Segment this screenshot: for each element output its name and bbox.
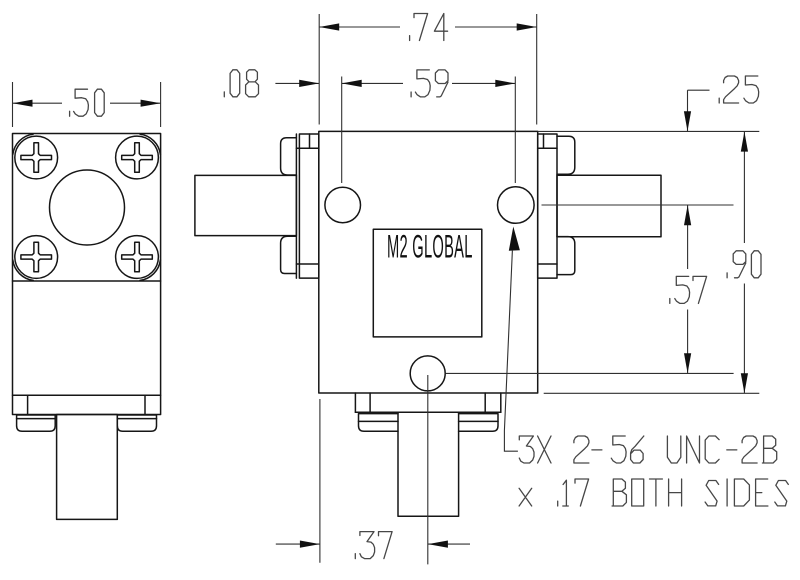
left view strip: [13, 395, 161, 414]
left screw bump bottom: [281, 236, 297, 273]
left connector stub: [195, 175, 297, 235]
left plate chamfer line bottom: [296, 263, 318, 265]
right flange plate: [538, 134, 557, 278]
mounting hole left: [325, 187, 361, 223]
dim .50 arrow left: [13, 100, 33, 107]
note text line1 3X 2-56 UNC-2B: [519, 436, 776, 463]
dim .90 line upper: [743, 132, 745, 243]
dim .25 leader vertical: [687, 90, 689, 131]
front nut tab R inner line: [459, 420, 498, 422]
corner arc BL: [13, 260, 33, 280]
left view flange bottom edge: [13, 280, 161, 282]
dim .59 arrow left: [342, 80, 362, 87]
left view flange+body outline: [13, 134, 161, 396]
dim .25 arrow: [684, 111, 691, 131]
dim .59 line left: [342, 82, 403, 84]
dim .37 line right: [428, 543, 470, 545]
note leader arrow: [509, 227, 520, 251]
dim .57 arrow up: [684, 205, 691, 225]
note leader line: [504, 250, 518, 451]
dim .37 line left: [276, 543, 320, 545]
dim .50 arrow right: [141, 100, 161, 107]
dim text .59: [411, 70, 448, 97]
bottom edge extension line: [544, 392, 760, 394]
right plate notch: [543, 134, 545, 148]
bottom hole centerline vertical: [427, 375, 429, 564]
dim text .50: [70, 89, 105, 116]
corner arc TR: [140, 134, 160, 154]
phillips recess 3: [21, 242, 52, 272]
phillips recess 4: [122, 242, 153, 272]
dim .90 arrow up: [741, 132, 748, 152]
dim .50 line left: [13, 102, 63, 104]
dim .08 arrow: [299, 80, 319, 87]
dim .50 ext line left: [12, 82, 14, 127]
left plate notch: [309, 134, 311, 148]
corner arc TL: [13, 134, 33, 154]
right plate chamfer line bottom: [538, 263, 557, 265]
dim text .37: [355, 532, 392, 559]
right plate chamfer line top: [538, 147, 557, 149]
right connector stub: [557, 175, 661, 237]
axis centerline horizontal: [542, 204, 734, 206]
dim .57 line lower: [687, 310, 689, 374]
screw head circle 3: [15, 236, 58, 279]
left plate outer face line: [295, 134, 297, 278]
dim text .08: [224, 70, 258, 97]
screw head circle 4: [116, 236, 159, 279]
front nut tab R: [459, 414, 498, 432]
dim .74 arrow right: [517, 23, 537, 30]
left screw bump top: [281, 138, 297, 175]
dim .59 arrow right: [495, 80, 515, 87]
dim .37 arrow right: [428, 541, 448, 548]
dim .59 ext right: [514, 77, 516, 184]
front strip inner R: [484, 393, 486, 412]
phillips recess 1: [21, 143, 52, 173]
phillips recess 2: [122, 143, 153, 173]
left view connector stub: [57, 415, 118, 520]
mounting hole right: [498, 187, 535, 224]
label box: [373, 229, 482, 337]
top edge extension line: [538, 130, 760, 132]
dim .74 line right: [455, 26, 537, 28]
dim .50 ext line right: [160, 82, 162, 127]
dim .74 ext left: [318, 14, 320, 125]
dim .50 line right: [110, 102, 161, 104]
dim .59 line right: [452, 82, 515, 84]
dim .90 line lower: [743, 284, 745, 394]
left view nut tab L: [17, 415, 56, 431]
dim .25 leader horizontal: [688, 89, 710, 91]
front nut tab L inner line: [359, 420, 399, 422]
bottom hole: [410, 356, 445, 391]
dim .74 ext right: [536, 14, 538, 125]
front nut tab L: [359, 414, 399, 432]
left view nut tab L inner line: [17, 418, 56, 420]
svg-text:M2 GLOBAL: M2 GLOBAL: [387, 229, 472, 265]
dim .57 arrow down: [684, 353, 691, 373]
dim .74 arrow left: [319, 23, 339, 30]
dim .74 line left: [319, 26, 400, 28]
left view nut tab R: [117, 415, 156, 431]
dim .37 ext left: [319, 399, 321, 563]
front strip outer L: [354, 393, 356, 412]
dim .59 ext left: [341, 77, 343, 184]
screw head circle 1: [15, 136, 58, 179]
left view nut tab R inner line: [117, 418, 156, 420]
left view center bore circle: [50, 170, 125, 245]
dim text .25: [719, 76, 759, 103]
left flange plate: [299, 134, 318, 278]
bottom hole leader line: [446, 372, 734, 374]
front strip bottom edge: [355, 411, 500, 413]
dim text .90: [727, 251, 761, 278]
front strip inner L: [369, 393, 371, 412]
dim .37 arrow left: [300, 541, 320, 548]
dim .90 arrow down: [741, 373, 748, 393]
left strip inner line L: [27, 395, 29, 414]
front strip outer R: [500, 393, 502, 412]
corner arc BR: [140, 260, 160, 280]
dim .08 line: [275, 82, 319, 84]
left plate chamfer line top: [296, 147, 318, 149]
front view body outline: [319, 131, 538, 393]
dim text .57: [670, 276, 707, 303]
dim .57 line upper: [687, 205, 689, 269]
front connector stub: [398, 412, 459, 516]
note text line2 x .17 BOTH SIDES: [519, 479, 788, 506]
left strip inner line R: [144, 395, 146, 414]
dim text .74: [410, 14, 448, 41]
screw head circle 2: [116, 136, 159, 179]
right screw bump bottom: [557, 237, 575, 275]
right screw bump top: [557, 136, 575, 174]
